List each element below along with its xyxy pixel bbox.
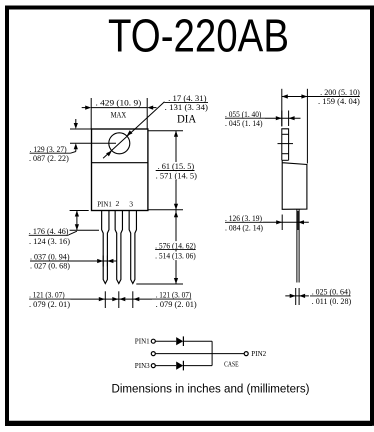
label .61(15.5) — [157, 162, 196, 171]
svg-text:. 025 (0. 64): . 025 (0. 64) — [312, 288, 351, 297]
dim .129 top extension line — [70, 128, 92, 130]
dim .126 tick right — [297, 211, 299, 230]
dim .61 top extension line — [148, 130, 183, 132]
wire PIN1 to diode D1 — [155, 340, 176, 342]
dim .576 arrow up — [174, 211, 178, 217]
wire D1 to junction — [183, 340, 212, 342]
underline .200 — [318, 96, 360, 98]
underline .126 — [225, 221, 263, 223]
dim .129 arrow up — [74, 143, 78, 149]
side view tab bottom line — [282, 159, 289, 161]
wire junction vertical — [211, 341, 213, 365]
svg-text:. 087 (2. 22): . 087 (2. 22) — [29, 154, 69, 163]
svg-text:2: 2 — [116, 199, 120, 208]
dim .129 arrow down — [75, 119, 77, 123]
svg-text:. 429 (10. 9): . 429 (10. 9) — [96, 99, 142, 108]
underline .055 — [225, 117, 265, 119]
dim .176 arrow up — [75, 211, 79, 217]
dim .429 right extension line — [146, 98, 148, 129]
dim .176 bottom extension line — [70, 229, 99, 231]
svg-text:Dimensions in inches and (mill: Dimensions in inches and (millimeters) — [112, 382, 310, 396]
svg-text:. 124 (3. 16): . 124 (3. 16) — [29, 237, 70, 246]
svg-text:PIN2: PIN2 — [251, 350, 266, 358]
svg-text:DIA: DIA — [177, 111, 197, 125]
dim .576 bottom extension line — [136, 283, 183, 285]
schematic terminal PIN3 — [151, 364, 155, 368]
schematic terminal PIN1 — [151, 339, 155, 343]
dim .121 line — [71, 298, 153, 300]
svg-text:. 037 (0. 94): . 037 (0. 94) — [30, 253, 70, 262]
svg-text:. 17 (4. 31): . 17 (4. 31) — [168, 94, 207, 103]
hole center leader — [70, 142, 116, 144]
svg-text:. 126 (3. 19): . 126 (3. 19) — [225, 214, 262, 223]
dim .61 line — [175, 131, 177, 210]
svg-text:. 079 (2. 01): . 079 (2. 01) — [29, 300, 70, 309]
svg-text:. 045 (1. 14): . 045 (1. 14) — [225, 119, 263, 128]
svg-text:PIN1: PIN1 — [97, 200, 112, 209]
dim .176 arrow down — [75, 224, 79, 230]
side view hole centerline — [278, 143, 294, 145]
dim .61 arrow up — [174, 131, 178, 137]
dim .176 line — [76, 211, 78, 231]
dim .126 arrow left — [298, 220, 304, 224]
svg-text:. 084 (2. 14): . 084 (2. 14) — [225, 223, 263, 232]
side view lead — [297, 209, 299, 282]
label .429(10.9) — [95, 98, 143, 107]
diode D1 — [176, 337, 183, 345]
svg-text:. 159 (4. 04): . 159 (4. 04) — [318, 97, 360, 106]
side view hole hidden edge top — [282, 133, 289, 135]
dim .576 line — [175, 210, 177, 284]
dim .025 tick left — [295, 288, 297, 305]
dim .055 line — [265, 117, 301, 119]
dim .037 line — [70, 260, 117, 262]
svg-text:. 571 (14. 5): . 571 (14. 5) — [156, 171, 198, 180]
dim .129 leader — [71, 152, 76, 154]
wire middle to PIN2 — [155, 353, 244, 355]
mounting hole — [109, 133, 130, 154]
dim .025 tick right — [298, 288, 300, 305]
svg-text:3: 3 — [129, 199, 133, 208]
dim .200 right extension line — [306, 89, 308, 164]
dim .200 arrow right — [301, 94, 307, 98]
schematic terminal PIN2 — [244, 352, 248, 356]
dim .429 right arrow — [147, 106, 153, 110]
dim .037 arrow left — [107, 259, 113, 263]
dim .037 arrow right — [97, 259, 103, 263]
dim .126 tick left — [281, 215, 283, 231]
svg-text:. 027 (0. 68): . 027 (0. 68) — [30, 262, 70, 271]
dim .025 arrow right — [290, 294, 296, 298]
dim .200 arrow left — [282, 94, 288, 98]
dim .025 arrow left — [299, 294, 305, 298]
underline .576 — [155, 249, 196, 251]
dim .126 line — [263, 221, 309, 223]
dim .429 left arrow — [85, 106, 91, 110]
front view body outline — [92, 129, 148, 211]
svg-text:. 176 (4. 46): . 176 (4. 46) — [29, 227, 69, 236]
svg-text:PIN1: PIN1 — [135, 337, 150, 345]
dim .61 arrow down — [174, 204, 178, 210]
dim .055 tick left — [281, 111, 283, 127]
dim .200 left extension line — [281, 89, 283, 127]
underline .129 — [30, 152, 71, 154]
dim .121 arrow c — [119, 297, 125, 301]
dim .126 arrow right — [276, 220, 282, 224]
front view tab/body separation line — [92, 162, 148, 164]
underline right .121 — [152, 298, 191, 300]
dim .037 tick right — [106, 256, 108, 267]
lead pin 2 front view — [115, 211, 122, 284]
dim .055 tick right — [288, 111, 290, 127]
underline .17 — [165, 102, 209, 104]
svg-text:PIN3: PIN3 — [135, 362, 150, 370]
dim .429 left extension line — [90, 98, 92, 129]
dim .429 line — [91, 107, 147, 109]
svg-text:. 129 (3. 27): . 129 (3. 27) — [30, 145, 67, 154]
label .514(13.06) — [154, 252, 197, 261]
svg-text:. 61 (15. 5): . 61 (15. 5) — [158, 162, 195, 171]
underline .61 — [156, 170, 195, 172]
svg-text:. 055 (1. 40): . 055 (1. 40) — [225, 110, 262, 119]
border frame bottom bar — [5, 421, 372, 426]
underline .037 — [30, 260, 70, 262]
svg-text:. 121 (3. 07): . 121 (3. 07) — [29, 291, 65, 300]
dim .037 tick left — [102, 256, 104, 267]
dim .025 line — [285, 295, 309, 297]
svg-text:CASE: CASE — [224, 360, 239, 368]
wire PIN3 to diode D2 — [155, 365, 176, 367]
dim .121 arrow d — [133, 297, 139, 301]
dim .055 arrow right — [276, 116, 282, 120]
side view hole hidden edge bottom — [282, 153, 289, 155]
underline left .121 — [29, 298, 70, 300]
DIA arrow upper-right — [127, 130, 133, 136]
dim .61 bottom extension line — [148, 209, 183, 211]
svg-text:. 514 (13. 06): . 514 (13. 06) — [155, 252, 196, 261]
svg-text:. 576 (14. 62): . 576 (14. 62) — [155, 241, 196, 250]
label .576(14.62) — [154, 241, 197, 250]
svg-text:. 121 (3. 07): . 121 (3. 07) — [156, 291, 192, 300]
diode D2 — [176, 362, 183, 370]
dim .121 arrow b — [112, 297, 118, 301]
schematic terminal middle — [151, 352, 155, 356]
dim .121 tick pin3 — [132, 291, 134, 308]
hole DIA leader diagonal — [103, 102, 164, 159]
svg-text:. 079 (2. 01): . 079 (2. 01) — [156, 300, 197, 309]
side view tab outline — [282, 129, 289, 161]
lead pin 1 front view — [102, 211, 109, 284]
dim .121 tick pin1 — [104, 291, 106, 308]
side view body outline — [282, 160, 307, 209]
dim .121 tick pin2 — [118, 291, 120, 308]
dim .121 arrow a — [99, 297, 105, 301]
dim .176 leader — [69, 231, 77, 235]
dim .576 arrow down — [174, 278, 178, 284]
label .571(14.5) — [155, 171, 198, 180]
DIA arrow lower-left — [106, 151, 112, 157]
dim .200 line — [282, 96, 308, 98]
dim .055 arrow left — [289, 116, 295, 120]
svg-text:TO-220AB: TO-220AB — [108, 9, 289, 61]
underline .176 — [29, 234, 69, 236]
svg-text:. 011 (0. 28): . 011 (0. 28) — [312, 297, 352, 306]
lead pin 3 front view — [129, 211, 136, 284]
wire D2 to junction — [183, 365, 212, 367]
svg-text:MAX: MAX — [111, 110, 127, 119]
dim .176 top extension line — [70, 210, 89, 212]
underline .025 — [310, 295, 351, 297]
